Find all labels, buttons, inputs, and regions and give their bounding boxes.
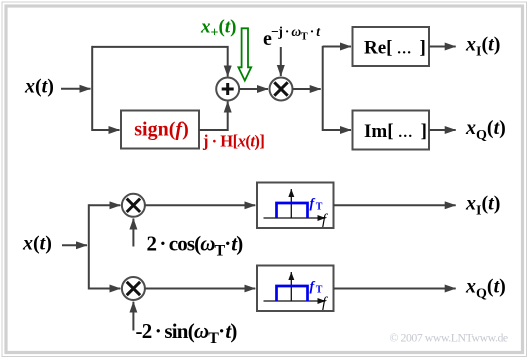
- svg-text:T: T: [316, 202, 323, 213]
- wire Re output: [429, 46, 456, 48]
- wire into Re box: [323, 46, 351, 48]
- wire F2 output: [334, 288, 456, 290]
- svg-text:x(t): x(t): [24, 76, 54, 98]
- svg-text:-2 · sin(ωT· t): -2 · sin(ωT· t): [136, 319, 238, 347]
- svg-text:x(t): x(t): [22, 233, 52, 255]
- svg-text:2 · cos(ωT· t): 2 · cos(ωT· t): [147, 232, 244, 260]
- wire into Im box: [323, 129, 351, 131]
- wire F1 output: [334, 204, 456, 206]
- svg-text:Re[ . . . ]: Re[ . . . ]: [364, 38, 426, 59]
- svg-text:T: T: [316, 285, 323, 296]
- wire bypass to adder: [92, 47, 228, 77]
- wire input arrow top: [61, 88, 91, 90]
- filter F1 vertical axis: [290, 189, 292, 218]
- filter F2 f-axis: [264, 300, 326, 302]
- block filter F1: [257, 183, 334, 229]
- multiplier M1: [122, 194, 145, 217]
- wire M1 to filter F1: [145, 204, 255, 206]
- block filter F2: [257, 266, 334, 312]
- multiplier M2: [122, 277, 145, 300]
- wire vertical branch bottom: [88, 204, 90, 289]
- wire Im output: [429, 129, 456, 131]
- wire junction vertical: [322, 46, 324, 131]
- wire carrier sin into M2: [132, 302, 134, 331]
- wire into sign box: [92, 129, 119, 131]
- svg-text:j · H[x(t)]: j · H[x(t)]: [202, 132, 264, 151]
- wire into multiplier M1: [89, 204, 121, 206]
- filter F1 f-axis: [264, 217, 326, 219]
- svg-text:Im[ . . . ]: Im[ . . . ]: [364, 121, 427, 142]
- arrow x+(t) hollow green: [238, 28, 251, 80]
- filter F1 response blue: [277, 203, 308, 218]
- svg-text:© 2007 www.LNTwww.de: © 2007 www.LNTwww.de: [390, 331, 508, 345]
- wire sign box to adder: [199, 102, 228, 131]
- block Im: [353, 111, 430, 150]
- wire multiplier to junction: [293, 88, 321, 90]
- wire adder to multiplier: [239, 88, 268, 90]
- block Re: [353, 27, 430, 66]
- wire vertical branch top: [91, 46, 93, 131]
- filter F2 vertical axis: [290, 272, 292, 301]
- wire into multiplier M2: [89, 288, 121, 290]
- adder U1: [216, 78, 239, 101]
- block sign(f): [121, 111, 199, 149]
- wire M2 to filter F2: [145, 288, 255, 290]
- wire carrier cos into M1: [132, 219, 134, 247]
- filter F2 response blue: [277, 286, 308, 301]
- svg-text:x+(t): x+(t): [200, 17, 236, 41]
- wire input arrow bottom: [62, 244, 87, 246]
- wire carrier into multiplier: [280, 47, 282, 76]
- svg-text:sign(f): sign(f): [134, 119, 188, 141]
- multiplier U2: [270, 78, 293, 101]
